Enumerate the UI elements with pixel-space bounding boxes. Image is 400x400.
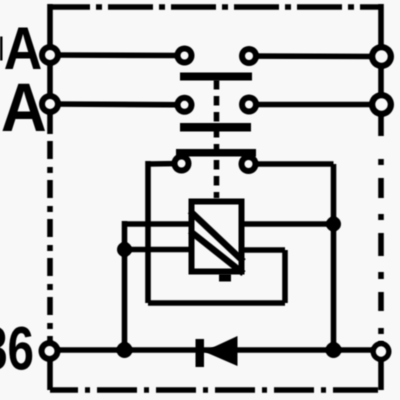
svg-text:A: A <box>1 70 47 147</box>
svg-text:86: 86 <box>0 314 34 383</box>
